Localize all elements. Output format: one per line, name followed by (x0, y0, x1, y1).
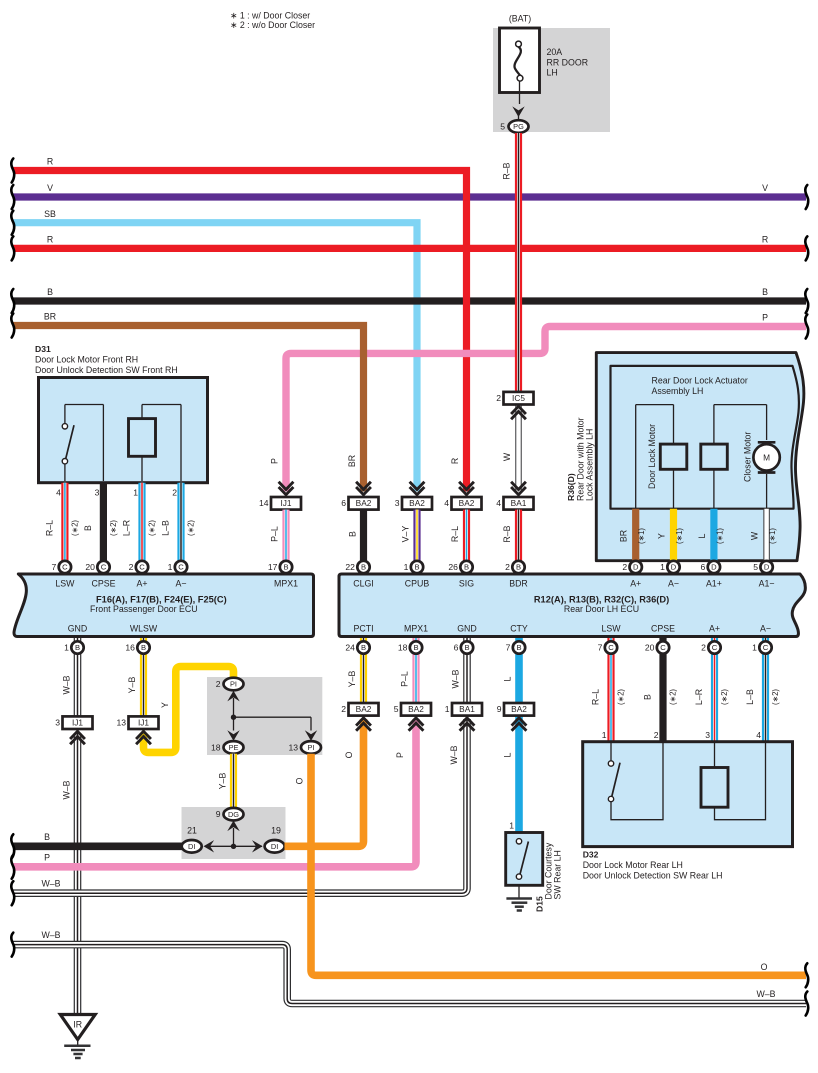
svg-text:C: C (712, 643, 718, 652)
svg-text:GND: GND (457, 624, 477, 634)
svg-text:9: 9 (216, 809, 221, 819)
svg-text:L: L (503, 676, 513, 681)
wire W-B GND front ECU down to IR ground (62, 638, 78, 1014)
svg-text:BA1: BA1 (511, 498, 527, 508)
wire break squiggles left (11, 159, 14, 957)
svg-text:Door Lock Motor Front RH: Door Lock Motor Front RH (35, 355, 138, 365)
svg-text:P: P (270, 458, 280, 464)
relay 19 DI (265, 826, 285, 853)
svg-text:LSW: LSW (601, 624, 621, 634)
fuse panel background (493, 28, 610, 132)
switch in D32 (608, 742, 663, 820)
svg-text:B: B (361, 563, 366, 572)
svg-text:LSW: LSW (55, 579, 75, 589)
connector 5 PG (500, 120, 528, 133)
svg-text:BA2: BA2 (356, 498, 372, 508)
svg-text:B: B (361, 643, 366, 652)
svg-text:(∗1): (∗1) (675, 528, 684, 544)
wire O label below 2 BA2 (344, 751, 354, 758)
svg-text:(∗2): (∗2) (669, 689, 678, 705)
svg-text:2: 2 (216, 679, 221, 689)
svg-text:1: 1 (404, 562, 409, 572)
door lock motor in R36 (636, 405, 687, 509)
svg-text:B: B (283, 563, 288, 572)
svg-text:C: C (139, 563, 145, 572)
svg-text:IJ1: IJ1 (138, 718, 149, 728)
junction 4 BA1 (496, 482, 533, 510)
component D32 Door Lock Motor Rear LH (583, 730, 793, 847)
wire W-B GND rear to 1 BA1 (451, 638, 468, 703)
svg-text:C: C (101, 563, 107, 572)
wire L to D15 labels (503, 752, 515, 830)
wire Y-B WLSW to IJ1 (127, 638, 144, 716)
svg-text:W: W (750, 531, 760, 540)
pin numbers D31 (56, 487, 177, 497)
svg-text:SB: SB (44, 209, 56, 219)
svg-text:21: 21 (187, 826, 197, 836)
wire P-L MPX1 to 5 BA2 (400, 638, 417, 703)
wire L-R (*2) from D31 pin1 to A+ (122, 483, 157, 563)
svg-text:2: 2 (496, 393, 501, 403)
wire O from 19 DI up to 2 BA2 PCTI (285, 719, 364, 846)
connector 2 C A+ rear (701, 641, 721, 653)
svg-text:V: V (762, 183, 768, 193)
svg-text:(BAT): (BAT) (509, 14, 531, 24)
svg-text:DI: DI (188, 842, 195, 851)
svg-text:6: 6 (454, 643, 459, 653)
svg-text:(∗2): (∗2) (187, 520, 196, 536)
svg-text:Y–B: Y–B (347, 671, 357, 688)
wire R bus upper with drop to BA2 (13, 157, 467, 492)
svg-text:1: 1 (752, 643, 757, 653)
svg-text:L–B: L–B (161, 520, 171, 536)
connector 1 B CPUB (404, 561, 424, 573)
connector 18 B MPX1 rear (398, 641, 422, 653)
wire P bus with step down to IJ1 (270, 313, 807, 492)
arrow into 18 PE (227, 717, 239, 741)
svg-text:1: 1 (509, 821, 514, 831)
svg-text:∗ 2 : w/o Door Closer: ∗ 2 : w/o Door Closer (230, 20, 315, 30)
svg-text:SIG: SIG (459, 579, 474, 589)
svg-text:B: B (75, 643, 80, 652)
junction 1 BA1 (445, 703, 482, 731)
arrow into 13 PI (305, 717, 317, 741)
svg-text:2: 2 (505, 562, 510, 572)
relay 13 PI (288, 741, 321, 754)
svg-text:IJ1: IJ1 (72, 718, 83, 728)
svg-text:Y–B: Y–B (127, 677, 137, 694)
relay panel background (DG/DI block) (182, 807, 286, 859)
wire L (*1) R36 to A1+ (697, 509, 725, 563)
svg-text:1: 1 (64, 643, 69, 653)
svg-text:13: 13 (288, 742, 298, 752)
wire V-Y from BA2 to CPUB (401, 510, 418, 563)
arrow into 9 DG and junction (227, 821, 239, 847)
svg-text:A+: A+ (709, 624, 720, 634)
connector 1 C A- (168, 561, 188, 573)
inner box Rear Door Lock Actuator Assembly LH (611, 366, 799, 509)
connector 26 B SIG (448, 561, 472, 573)
svg-text:1: 1 (660, 562, 665, 572)
svg-text:F16(A), F17(B), F24(E), F25(C): F16(A), F17(B), F24(E), F25(C) (96, 594, 227, 604)
svg-text:PI: PI (230, 680, 237, 689)
svg-text:R–L: R–L (44, 520, 54, 536)
svg-text:LH: LH (547, 68, 558, 78)
wire W (*1) R36 to A1- (750, 509, 778, 563)
wire W from IC5 to BA1 (502, 405, 519, 493)
ECU F16 Front Passenger Door ECU (14, 574, 313, 637)
svg-text:B: B (47, 287, 53, 297)
svg-text:2: 2 (172, 487, 177, 497)
wire L CTY to 9 BA2 and D15 (503, 638, 520, 833)
svg-text:W–B: W–B (41, 930, 60, 940)
svg-text:B: B (516, 643, 521, 652)
svg-text:Front Passenger Door ECU: Front Passenger Door ECU (90, 604, 198, 614)
wire SB bus (13, 209, 417, 492)
svg-text:17: 17 (268, 562, 278, 572)
svg-text:B: B (44, 832, 50, 842)
svg-text:5: 5 (500, 122, 505, 132)
arrow into 2 PI and junction line (227, 691, 239, 717)
svg-text:(∗2): (∗2) (771, 689, 780, 705)
junction 2 IC5 (496, 392, 533, 419)
closer motor in R36 (701, 405, 780, 509)
wire L-B (*2) A- rear to D32 pin4 (745, 638, 780, 742)
ECU R12 Rear Door LH ECU (339, 574, 805, 637)
relay 21 DI (182, 826, 202, 853)
svg-text:CPUB: CPUB (405, 579, 430, 589)
svg-text:D32: D32 (583, 850, 599, 860)
connector 1 C A- rear (752, 641, 772, 653)
wire Y-B PCTI to 2 BA2 (347, 638, 364, 703)
svg-text:PCTI: PCTI (353, 624, 373, 634)
svg-text:R: R (47, 157, 53, 167)
svg-text:(∗2): (∗2) (109, 520, 118, 536)
svg-text:1: 1 (133, 487, 138, 497)
connector 6 D A1+ (701, 561, 721, 573)
svg-text:18: 18 (211, 742, 221, 752)
svg-text:Y: Y (160, 702, 170, 708)
wire P-L from IJ1 to MPX1 (270, 510, 287, 563)
svg-text:R–L: R–L (591, 689, 601, 705)
svg-text:L: L (503, 752, 513, 757)
svg-text:2: 2 (622, 562, 627, 572)
svg-text:B: B (348, 531, 358, 537)
svg-text:19: 19 (271, 826, 281, 836)
svg-text:W–B: W–B (62, 780, 72, 799)
svg-text:CLGI: CLGI (353, 579, 374, 589)
connector 1 D A- (660, 561, 680, 573)
svg-text:B: B (83, 525, 93, 531)
svg-text:L–B: L–B (745, 689, 755, 705)
svg-text:R–B: R–B (502, 525, 512, 542)
junction node (231, 715, 311, 720)
wire P bus bottom to 5 BA2 MPX1 (13, 719, 416, 867)
svg-text:5: 5 (753, 562, 758, 572)
wire R-B from BA1 to BDR (502, 510, 519, 563)
svg-text:BR: BR (44, 312, 56, 322)
svg-text:4: 4 (444, 498, 449, 508)
relay panel background (PI/PE block) (207, 677, 322, 755)
svg-text:DG: DG (228, 810, 239, 819)
wire BR (*1) R36 to A+ (619, 509, 647, 563)
svg-text:16: 16 (125, 643, 135, 653)
svg-text:4: 4 (496, 498, 501, 508)
svg-text:7: 7 (506, 643, 511, 653)
svg-text:R: R (762, 235, 768, 245)
svg-text:MPX1: MPX1 (404, 624, 428, 634)
svg-text:W–B: W–B (62, 675, 72, 694)
svg-text:A+: A+ (630, 579, 641, 589)
svg-text:B: B (464, 643, 469, 652)
fuse 20A RR DOOR LH (500, 14, 589, 122)
wire B from BA2 to CLGI (348, 510, 364, 563)
svg-text:W–B: W–B (756, 989, 775, 999)
svg-text:Y–B: Y–B (218, 773, 228, 790)
svg-text:C: C (62, 563, 68, 572)
svg-text:W–B: W–B (41, 879, 60, 889)
svg-text:R: R (450, 458, 460, 464)
svg-text:C: C (763, 643, 769, 652)
connector 2 C A+ (129, 561, 149, 573)
wire B (*2) CPSE rear to D32 pin2 (643, 638, 678, 742)
wire R bus lower (13, 235, 806, 249)
connector 6 B GND rear (454, 641, 474, 653)
svg-text:O: O (295, 777, 305, 784)
svg-text:IR: IR (73, 1020, 82, 1030)
svg-text:CTY: CTY (510, 624, 528, 634)
wire BR bus with drop to BA2 (13, 312, 364, 492)
svg-text:3: 3 (705, 730, 710, 740)
connector 24 B PCTI (345, 641, 369, 653)
svg-text:GND: GND (68, 624, 88, 634)
svg-text:(∗1): (∗1) (715, 528, 724, 544)
svg-text:PG: PG (513, 122, 524, 131)
svg-text:A−: A− (760, 624, 771, 634)
component R36 Rear Door with Motor Lock Assembly LH (566, 353, 804, 561)
connector 20 C CPSE rear (645, 641, 669, 653)
wire W-B bus to 1 BA1 GND rear (13, 719, 467, 893)
svg-text:2: 2 (341, 704, 346, 714)
svg-text:M: M (763, 453, 770, 463)
svg-text:BA1: BA1 (459, 704, 475, 714)
arrow into 21 DI (204, 840, 215, 852)
svg-text:Lock Assembly LH: Lock Assembly LH (585, 429, 595, 501)
connector 17 B MPX1 (268, 561, 292, 573)
motor in D32 (701, 742, 766, 820)
svg-text:2: 2 (129, 562, 134, 572)
ground under D15 (506, 885, 532, 910)
svg-text:7: 7 (598, 643, 603, 653)
svg-text:2: 2 (654, 730, 659, 740)
svg-text:V: V (47, 183, 53, 193)
svg-text:P: P (395, 752, 405, 758)
svg-text:MPX1: MPX1 (274, 579, 298, 589)
wire R-B from PG to IC5 (502, 133, 519, 392)
wire Y (*1) R36 to A- (657, 509, 685, 563)
svg-text:26: 26 (448, 562, 458, 572)
connector 2 B BDR (505, 561, 525, 573)
svg-text:A1+: A1+ (706, 579, 722, 589)
svg-text:Assembly LH: Assembly LH (652, 386, 704, 396)
relay 9 DG (216, 808, 244, 821)
svg-text:(∗2): (∗2) (617, 689, 626, 705)
connector 5 D A1- (753, 561, 773, 573)
svg-text:B: B (413, 643, 418, 652)
component D31 Door Lock Motor Front RH (35, 344, 208, 483)
svg-text:P: P (762, 313, 768, 323)
svg-text:3: 3 (395, 498, 400, 508)
svg-text:R12(A), R13(B), R32(C), R36(D): R12(A), R13(B), R32(C), R36(D) (534, 594, 669, 604)
svg-text:22: 22 (345, 562, 355, 572)
svg-text:Door Lock Motor: Door Lock Motor (647, 424, 657, 489)
junction node 2 (205, 844, 262, 849)
svg-text:A+: A+ (136, 579, 147, 589)
wire R-L (*2) from D31 pin4 to LSW (44, 483, 79, 563)
svg-text:Y: Y (657, 533, 667, 539)
svg-text:D: D (633, 563, 639, 572)
svg-text:C: C (608, 643, 614, 652)
svg-text:P–L: P–L (270, 526, 280, 542)
svg-text:CPSE: CPSE (651, 624, 675, 634)
svg-text:PI: PI (308, 743, 315, 752)
junction 13 IJ1 (116, 716, 158, 744)
svg-text:Door Unlock Detection SW Rear: Door Unlock Detection SW Rear LH (583, 870, 723, 880)
junction 3 BA2 (395, 482, 432, 510)
svg-text:W: W (502, 452, 512, 461)
svg-text:9: 9 (497, 704, 502, 714)
svg-text:A−: A− (175, 579, 186, 589)
svg-text:3: 3 (95, 487, 100, 497)
svg-text:2: 2 (701, 643, 706, 653)
wire L-R (*2) A+ rear to D32 pin3 (694, 638, 729, 742)
relay 2 PI (216, 678, 244, 691)
svg-text:L: L (697, 533, 707, 538)
svg-text:(∗2): (∗2) (148, 520, 157, 536)
relay 18 PE (211, 741, 244, 754)
svg-text:Door Unlock Detection SW Front: Door Unlock Detection SW Front RH (35, 365, 178, 375)
arrow into 19 DI (252, 840, 263, 852)
svg-text:D: D (764, 563, 770, 572)
wire O from 13 PI to right edge (295, 754, 807, 976)
wire B bus (13, 287, 806, 301)
svg-text:BA2: BA2 (511, 704, 527, 714)
junction 9 BA2 (497, 703, 534, 731)
wire R-L from BA2 to SIG (450, 510, 467, 563)
svg-text:R: R (47, 235, 53, 245)
svg-text:RR DOOR: RR DOOR (547, 57, 589, 67)
svg-text:B: B (464, 563, 469, 572)
svg-text:A1−: A1− (759, 579, 775, 589)
svg-text:(∗2): (∗2) (720, 689, 729, 705)
wire Y from IJ1 loop to relay 2 PI (144, 667, 234, 753)
svg-text:(∗1): (∗1) (768, 528, 777, 544)
wire V bus (13, 183, 806, 197)
svg-text:R–L: R–L (450, 526, 460, 542)
connector 7 B CTY (506, 641, 526, 653)
svg-text:D: D (711, 563, 717, 572)
svg-text:WLSW: WLSW (130, 624, 158, 634)
svg-text:P: P (44, 853, 50, 863)
connector 7 C LSW rear (598, 641, 618, 653)
junction 2 BA2 (341, 703, 378, 731)
svg-text:6: 6 (701, 562, 706, 572)
svg-text:20: 20 (645, 643, 655, 653)
svg-text:4: 4 (756, 730, 761, 740)
svg-text:BA2: BA2 (409, 498, 425, 508)
svg-text:BDR: BDR (509, 579, 528, 589)
svg-text:4: 4 (56, 487, 61, 497)
svg-text:(∗1): (∗1) (637, 528, 646, 544)
svg-text:O: O (761, 962, 768, 972)
svg-text:1: 1 (445, 704, 450, 714)
svg-text:1: 1 (168, 562, 173, 572)
svg-text:13: 13 (116, 718, 126, 728)
svg-text:B: B (414, 563, 419, 572)
svg-text:C: C (178, 563, 184, 572)
junction 3 IJ1 (55, 716, 92, 744)
svg-text:R36(D): R36(D) (566, 473, 576, 501)
wire Y-B from PE to DG (218, 754, 234, 808)
wire break squiggles right (805, 185, 808, 1016)
wire B bus bottom to 21 DI (13, 832, 182, 846)
svg-text:R–B: R–B (502, 162, 512, 179)
svg-text:V–Y: V–Y (401, 526, 411, 543)
connector 22 B CLGI (345, 561, 369, 573)
svg-text:BR: BR (347, 455, 357, 467)
junction 14 IJ1 (259, 482, 301, 510)
svg-text:D31: D31 (35, 344, 51, 354)
motor in D31 (129, 405, 182, 482)
connector 2 D A+ (622, 561, 642, 573)
svg-text:1: 1 (602, 730, 607, 740)
connector 7 C LSW (52, 561, 72, 573)
svg-text:24: 24 (345, 643, 355, 653)
junction 5 BA2 (394, 703, 431, 731)
svg-text:CPSE: CPSE (92, 579, 116, 589)
svg-text:IC5: IC5 (512, 393, 525, 403)
svg-text:Rear Door LH ECU: Rear Door LH ECU (564, 604, 639, 614)
connector 1 B GND front (64, 641, 84, 653)
svg-text:20A: 20A (547, 47, 563, 57)
svg-text:18: 18 (398, 643, 408, 653)
wire W-B label below 1 BA1 (449, 745, 459, 764)
svg-text:B: B (762, 287, 768, 297)
svg-text:BA2: BA2 (356, 704, 372, 714)
junction 6 BA2 (341, 482, 378, 510)
svg-text:D: D (671, 563, 677, 572)
svg-text:7: 7 (52, 562, 57, 572)
svg-text:P–L: P–L (400, 671, 410, 687)
wire R-L (*2) LSW rear to D32 pin1 (591, 638, 626, 742)
svg-text:(∗2): (∗2) (70, 520, 79, 536)
component D15 Door Courtesy SW Rear LH (506, 833, 563, 913)
svg-text:Door Lock Motor Rear LH: Door Lock Motor Rear LH (583, 860, 683, 870)
switch in D31 (62, 405, 103, 482)
svg-text:14: 14 (259, 498, 269, 508)
svg-text:DI: DI (271, 842, 278, 851)
svg-text:5: 5 (394, 704, 399, 714)
svg-text:Rear Door Lock Actuator: Rear Door Lock Actuator (652, 376, 748, 386)
wire W-B bottom bus (13, 930, 806, 1004)
connector 16 B WLSW (125, 641, 149, 653)
svg-text:B: B (141, 643, 146, 652)
label D32 (583, 850, 723, 881)
svg-text:6: 6 (341, 498, 346, 508)
svg-text:L–R: L–R (122, 520, 132, 536)
svg-text:W–B: W–B (451, 669, 461, 688)
connector 20 C CPSE (85, 561, 109, 573)
